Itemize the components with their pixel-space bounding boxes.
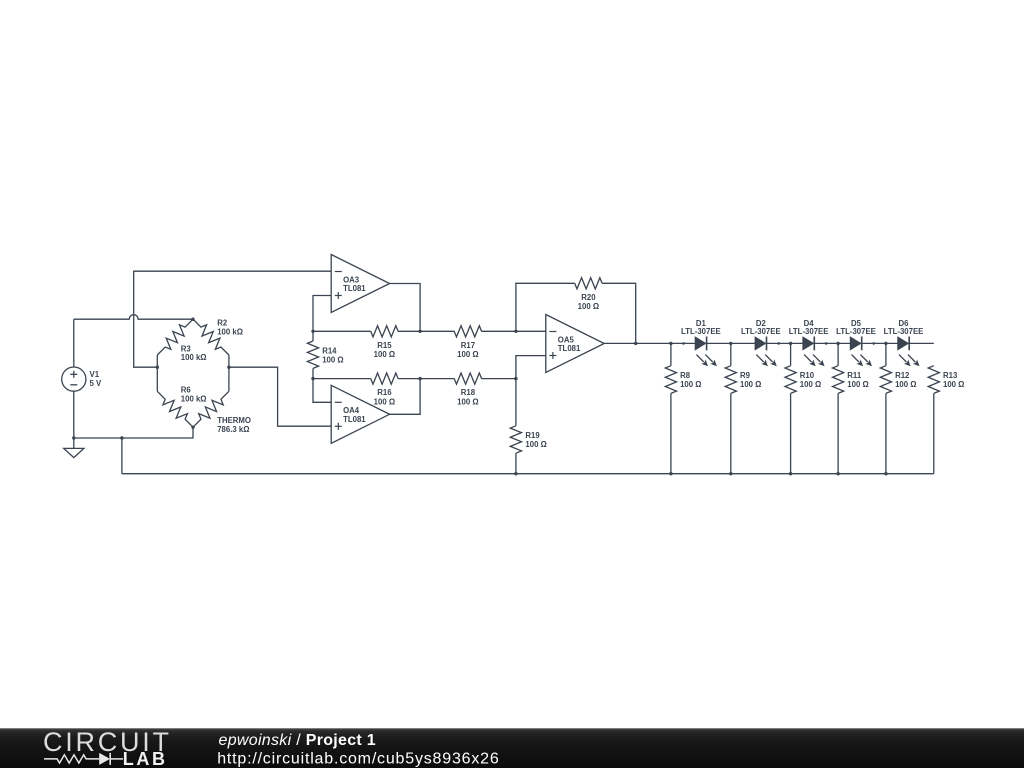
svg-text:THERMO: THERMO [217,416,251,425]
wire ground rail drop to bottom bus [121,438,123,474]
terminal dot D1 anode [682,342,685,345]
wire V1 top to feedback row [73,319,75,367]
svg-text:R19: R19 [525,431,540,440]
svg-text:100 kΩ: 100 kΩ [181,353,207,362]
svg-text:5 V: 5 V [90,379,103,388]
svg-text:100 kΩ: 100 kΩ [181,395,207,404]
junction dot R9 top [729,342,732,345]
svg-text:R18: R18 [461,388,476,397]
junction dot R10 top [789,342,792,345]
junction dot row1 left [311,330,314,333]
resistor R3 (bridge top-left arm) [157,319,193,355]
junction dot R19 bottom [514,472,517,475]
wire R12 branch [885,343,887,365]
svg-text:786.3 kΩ: 786.3 kΩ [217,425,249,434]
wire R20 to output node [602,283,636,343]
wire R10 branch [790,343,792,365]
svg-text:100 Ω: 100 Ω [457,350,478,359]
resistor R16 [371,373,398,384]
wire R13 to bottom bus [933,393,935,473]
resistor R20 [575,278,602,289]
svg-text:TL081: TL081 [343,284,366,293]
wire ground rail to bridge bottom [74,427,193,438]
svg-text:TL081: TL081 [343,415,366,424]
svg-text:R9: R9 [740,371,751,380]
svg-text:R20: R20 [581,293,596,302]
wire row1 R17 to OA5 inverting input [482,330,546,332]
wire OA3 noninverting input [313,296,331,332]
resistor R15 [371,326,398,337]
wire bridge right node to OA4 noninverting input [229,367,331,426]
svg-text:LAB: LAB [123,749,168,768]
CircuitLab logo resistor-diode squiggle [44,755,99,763]
wire R8 to bottom bus [670,393,672,473]
svg-text:100 kΩ: 100 kΩ [217,327,243,336]
terminal dot D2 cathode [777,342,780,345]
resistor R12 [880,366,891,394]
resistor R6 (bridge bottom-left arm) [156,367,158,391]
wire OA5 noninverting input [516,356,546,379]
svg-text:LTL-307EE: LTL-307EE [681,327,721,336]
LED D6 LTL-307EE [898,337,908,350]
junction dot V1-ground [72,436,75,439]
junction dot row1 mid [418,330,421,333]
junction dot R11 top [836,342,839,345]
resistor R17 [454,326,482,337]
junction dot R11 bottom [836,472,839,475]
resistor R19 [515,379,517,426]
wire OA4 inverting input [313,379,331,403]
wire OA3 inverting input run [134,271,332,367]
wire row2 node B [313,378,371,380]
junction dot row2 mid [418,377,421,380]
svg-text:R12: R12 [895,371,910,380]
LED D5 LTL-307EE [850,337,860,350]
svg-text:R8: R8 [680,371,691,380]
svg-text:R6: R6 [181,386,192,395]
svg-text:100 Ω: 100 Ω [847,380,868,389]
junction dot row2 left [311,377,314,380]
wire OA4 output [390,379,421,415]
wire row2 R18 to node C [482,378,516,380]
svg-text:LTL-307EE: LTL-307EE [789,327,829,336]
svg-text:R17: R17 [461,341,475,350]
svg-text:100 Ω: 100 Ω [740,380,761,389]
node bridge left [156,366,159,369]
svg-text:LTL-307EE: LTL-307EE [884,327,924,336]
terminal dot D5 cathode [872,342,875,345]
op-amp OA4 [331,385,389,443]
wire R8 branch [670,343,672,365]
svg-text:R11: R11 [847,371,862,380]
svg-text:epwoinski / Project 1: epwoinski / Project 1 [219,732,377,749]
svg-text:R3: R3 [181,344,192,353]
junction dot R10 bottom [789,472,792,475]
resistor R8 [665,366,676,394]
junction dot R12 top [884,342,887,345]
junction dot row2 right [514,377,517,380]
junction dot R12 bottom [884,472,887,475]
svg-text:TL081: TL081 [558,344,581,353]
svg-text:R13: R13 [943,371,958,380]
svg-text:100 Ω: 100 Ω [943,380,964,389]
svg-text:V1: V1 [90,370,100,379]
svg-text:http://circuitlab.com/cub5ys89: http://circuitlab.com/cub5ys8936x26 [217,751,499,768]
wire V1 bottom to ground rail [73,391,75,438]
wire R12 to bottom bus [885,393,887,473]
junction dot row1 right [514,330,517,333]
svg-text:R16: R16 [377,388,392,397]
svg-text:100 Ω: 100 Ω [457,398,478,407]
resistor R14 [312,331,314,341]
svg-text:R14: R14 [322,347,337,356]
LED D2 LTL-307EE [755,337,765,350]
svg-text:100 Ω: 100 Ω [578,302,599,311]
svg-text:100 Ω: 100 Ω [800,380,821,389]
svg-text:100 Ω: 100 Ω [680,380,701,389]
wire R11 branch [837,343,839,365]
wire R11 to bottom bus [837,393,839,473]
resistor R18 [454,373,482,384]
junction dot R8 bottom [669,472,672,475]
wire bottom bus [122,473,934,475]
svg-text:100 Ω: 100 Ω [374,398,395,407]
svg-text:100 Ω: 100 Ω [322,355,343,364]
wire row2 R16 to R18 [398,378,454,380]
svg-text:100 Ω: 100 Ω [895,380,916,389]
junction dot R9 bottom [729,472,732,475]
svg-text:LTL-307EE: LTL-307EE [741,327,781,336]
node bridge top [191,318,194,321]
svg-text:LTL-307EE: LTL-307EE [836,327,876,336]
wire OA5 output rail [604,342,934,344]
node bridge bottom [191,426,194,429]
resistor R10 [785,366,796,394]
resistor R2 (bridge top-right arm) [193,319,229,355]
op-amp OA5 [546,315,604,373]
node bridge right [227,366,230,369]
junction dot ground rail drop [120,436,123,439]
op-amp OA3 [331,255,389,313]
wire row1 R15 to R17 [398,330,454,332]
wire R20 feedback top [516,283,575,331]
thermistor THERMO (bridge bottom-right arm) [228,367,230,391]
svg-text:100 Ω: 100 Ω [374,350,395,359]
wire top horizontal to bridge top node with hop [74,315,193,320]
svg-text:R15: R15 [377,341,392,350]
junction dot output-R20 [634,342,637,345]
LED D4 LTL-307EE [803,337,813,350]
wire R10 to bottom bus [790,393,792,473]
terminal dot D4 cathode [825,342,828,345]
wire R9 to bottom bus [730,393,732,473]
resistor R9 [725,366,736,394]
svg-text:R2: R2 [217,319,228,328]
svg-text:R10: R10 [800,371,815,380]
voltage source V1 [62,367,86,391]
svg-text:100 Ω: 100 Ω [525,440,546,449]
LED D1 LTL-307EE [695,337,705,350]
resistor R11 [833,366,844,394]
resistor R13 [928,366,939,394]
ground [64,438,84,458]
junction dot R8 top [669,342,672,345]
wire OA3 output [390,284,421,332]
wire R9 branch [730,343,732,365]
wire row1 node A [313,330,371,332]
